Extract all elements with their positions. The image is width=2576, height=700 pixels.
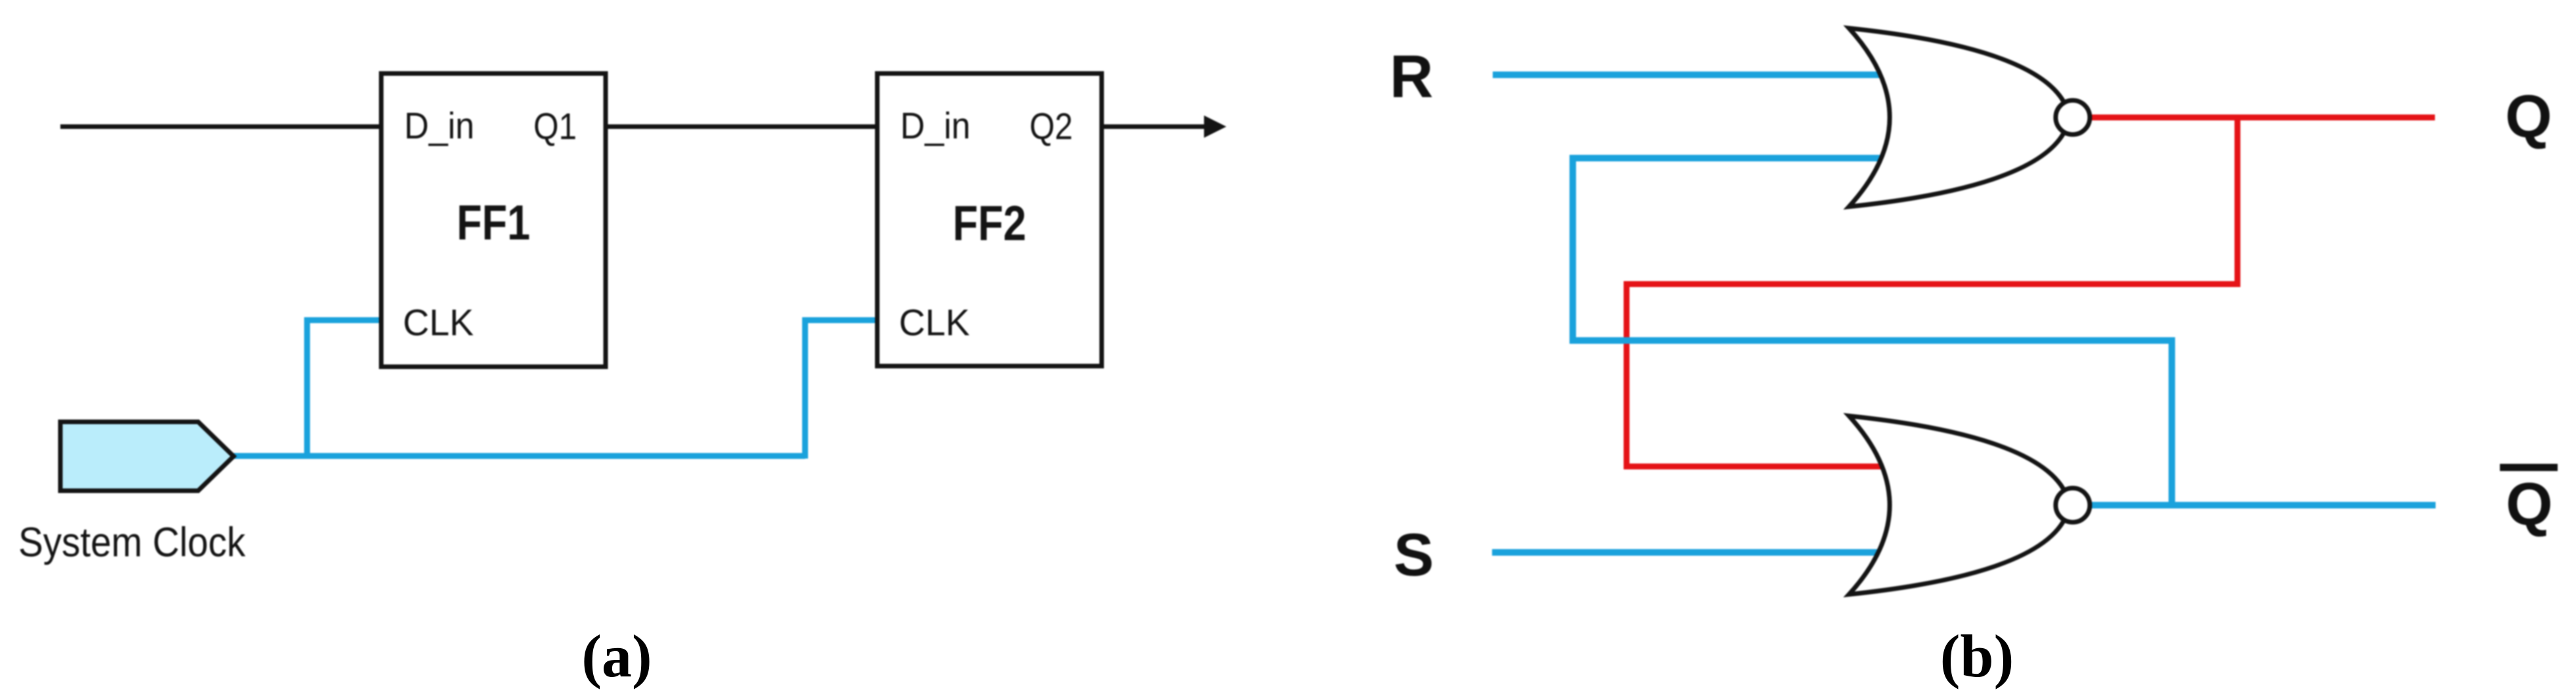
- wire clock main horizontal: [231, 453, 805, 459]
- svg-text:D_in: D_in: [900, 105, 970, 147]
- svg-text:D_in: D_in: [404, 105, 474, 147]
- svg-text:System Clock: System Clock: [18, 520, 245, 566]
- flip-flop FF2: [877, 73, 1102, 366]
- bubble U2: [2056, 488, 2090, 522]
- bubble U1: [2056, 100, 2090, 134]
- svg-text:R: R: [1390, 43, 1433, 110]
- svg-text:S: S: [1394, 522, 1434, 588]
- svg-text:Q: Q: [2506, 471, 2553, 538]
- svg-text:CLK: CLK: [899, 302, 970, 344]
- svg-text:Q2: Q2: [1029, 106, 1073, 148]
- svg-text:(b): (b): [1940, 623, 2014, 690]
- wire D input into FF1: [60, 125, 381, 129]
- wire clock branch to FF1 CLK: [307, 320, 381, 459]
- wire Q feedback to bottom gate input: [1627, 117, 2237, 466]
- overline of Q-bar: [2500, 464, 2558, 471]
- wire S input: [1492, 549, 1886, 556]
- flip-flop FF1: [381, 73, 606, 367]
- wire Q output: [2092, 115, 2435, 121]
- wire Qbar feedback to top gate input: [1573, 158, 2172, 505]
- svg-text:CLK: CLK: [403, 302, 474, 344]
- svg-text:(a): (a): [581, 623, 652, 690]
- wire FF1 Q1 to FF2 D_in: [606, 125, 877, 129]
- svg-text:Q: Q: [2505, 83, 2552, 150]
- svg-text:FF1: FF1: [457, 195, 530, 250]
- wire R input: [1493, 72, 1886, 78]
- svg-text:Q1: Q1: [533, 106, 577, 148]
- svg-text:FF2: FF2: [953, 196, 1026, 251]
- clock source symbol: [60, 422, 234, 491]
- NOR gate U2 (bottom): [1849, 416, 2071, 594]
- wire Qbar output: [2090, 502, 2436, 508]
- wire FF2 Q2 output with arrowhead: [1102, 125, 1207, 129]
- NOR gate U1 (top): [1849, 28, 2071, 207]
- wire clock branch to FF2 CLK: [805, 320, 877, 459]
